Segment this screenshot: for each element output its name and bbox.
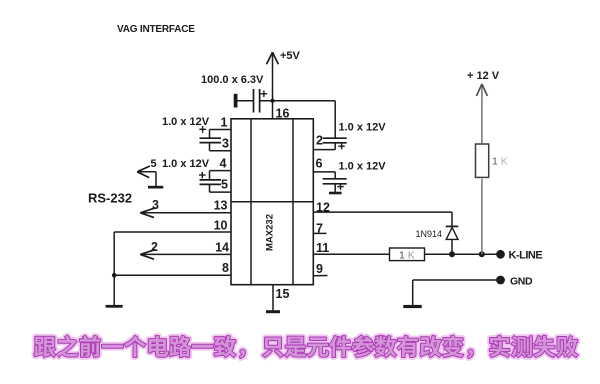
wire pin 12	[313, 212, 452, 226]
pin 7 label	[316, 222, 323, 236]
label 1.0x12V C1R	[339, 122, 387, 134]
title VAG INTERFACE	[117, 24, 195, 35]
svg-text:9: 9	[316, 262, 323, 276]
GND terminal	[496, 276, 533, 288]
svg-text:3: 3	[222, 137, 229, 151]
svg-text:1.0 x 12V: 1.0 x 12V	[339, 122, 387, 134]
K-LINE terminal	[496, 250, 542, 262]
wire R2 to K-LINE	[425, 253, 497, 255]
junction dot pin8	[112, 273, 117, 278]
pin 3 label	[222, 137, 229, 151]
ground bar at DB9 pin5	[148, 186, 163, 189]
svg-text:1.0 x 12V: 1.0 x 12V	[339, 161, 387, 173]
pin 9 label	[316, 262, 323, 276]
wire GND to ground	[413, 280, 497, 305]
wire down to C1R	[334, 101, 336, 138]
svg-text:2: 2	[151, 240, 158, 254]
wire pin 10	[114, 232, 231, 305]
+5V power arrow	[267, 50, 301, 119]
node pin16 junction	[271, 99, 275, 103]
capacitor C1L pins 1-3	[199, 126, 231, 151]
wire pin 8	[114, 274, 231, 276]
svg-text:1 K: 1 K	[492, 156, 508, 168]
wire pin 15 to ground	[272, 285, 274, 311]
wire R1 to K-LINE node	[481, 179, 483, 255]
wire pin 13 with arrow	[140, 208, 231, 218]
wire pin 7 stub	[313, 232, 327, 234]
wire node to right	[260, 100, 336, 102]
svg-text:1: 1	[221, 116, 228, 130]
svg-text:VAG INTERFACE: VAG INTERFACE	[117, 24, 195, 35]
pin 13 label	[214, 199, 228, 213]
svg-text:3: 3	[152, 198, 159, 212]
junction dot diode	[449, 251, 455, 257]
RS-232 gnd stub arrow	[137, 166, 156, 186]
svg-text:15: 15	[276, 287, 290, 301]
pin 8 label	[222, 261, 229, 275]
wire pin 14 with arrow	[140, 249, 231, 259]
label 2 arrow	[151, 240, 158, 254]
pin 15 label	[276, 287, 290, 301]
svg-text:1.0 x 12V: 1.0 x 12V	[162, 158, 210, 170]
+12V power arrow	[467, 70, 500, 143]
svg-text:11: 11	[316, 241, 329, 255]
svg-text:8: 8	[222, 261, 229, 275]
ground bar pin15	[266, 310, 280, 313]
op-amp U1 MAX232 body	[231, 119, 313, 285]
ground bar GND	[403, 305, 421, 308]
svg-text:14: 14	[215, 241, 229, 255]
pin 10 label	[214, 219, 228, 233]
svg-text:4: 4	[220, 157, 227, 171]
pin 6 label	[316, 157, 323, 171]
pin 5 label	[221, 178, 228, 192]
svg-text:K-LINE: K-LINE	[509, 250, 543, 262]
svg-text:1N914: 1N914	[416, 229, 443, 239]
wire pin 11 to R2	[313, 253, 390, 255]
pin 14 label	[215, 241, 229, 255]
label 5 1.0x12V C2L	[151, 158, 210, 170]
wire pin 9 stub	[313, 275, 328, 277]
svg-text:6: 6	[316, 157, 323, 171]
svg-text:+5V: +5V	[280, 50, 301, 62]
capacitor C2R pin 6 to ground	[313, 172, 347, 192]
svg-text:2: 2	[316, 134, 323, 148]
capacitor C2L pins 4-5	[199, 171, 231, 193]
pin 1 label	[221, 116, 228, 130]
svg-text:RS-232: RS-232	[88, 191, 132, 206]
svg-text:16: 16	[276, 107, 290, 121]
svg-text:13: 13	[214, 199, 228, 213]
label 1.0x12V C2R	[339, 161, 387, 173]
caption text	[34, 336, 578, 359]
pin 11 label	[316, 241, 329, 255]
svg-text:GND: GND	[510, 276, 533, 288]
label 1.0x12V C1L	[162, 116, 210, 128]
svg-text:100.0 x 6.3V: 100.0 x 6.3V	[201, 74, 264, 86]
svg-text:5: 5	[221, 178, 228, 192]
svg-text:1 K: 1 K	[399, 250, 415, 262]
pin 16 label	[276, 107, 290, 121]
RS-232 label	[88, 191, 132, 206]
diode D1 1N914	[416, 226, 459, 254]
pin 2 label	[316, 134, 323, 148]
resistor R1 1K vertical	[476, 144, 508, 177]
capacitor C1R pins 2	[313, 138, 347, 149]
label 3 arrow	[152, 198, 159, 212]
ground bar left bottom	[106, 305, 123, 308]
pin 4 label	[220, 157, 227, 171]
ground bar at C2R	[329, 192, 342, 195]
svg-text:5: 5	[151, 158, 157, 170]
junction dot R1	[479, 251, 485, 257]
ground bar at C5	[234, 94, 238, 108]
capacitor C5 100.0x6.3V	[201, 74, 267, 113]
resistor R2 1K	[390, 248, 425, 262]
svg-text:10: 10	[214, 219, 228, 233]
pin 12 label	[316, 201, 330, 215]
caption halo	[34, 336, 578, 359]
svg-text:MAX232: MAX232	[264, 214, 275, 251]
svg-text:+ 12 V: + 12 V	[467, 70, 500, 82]
